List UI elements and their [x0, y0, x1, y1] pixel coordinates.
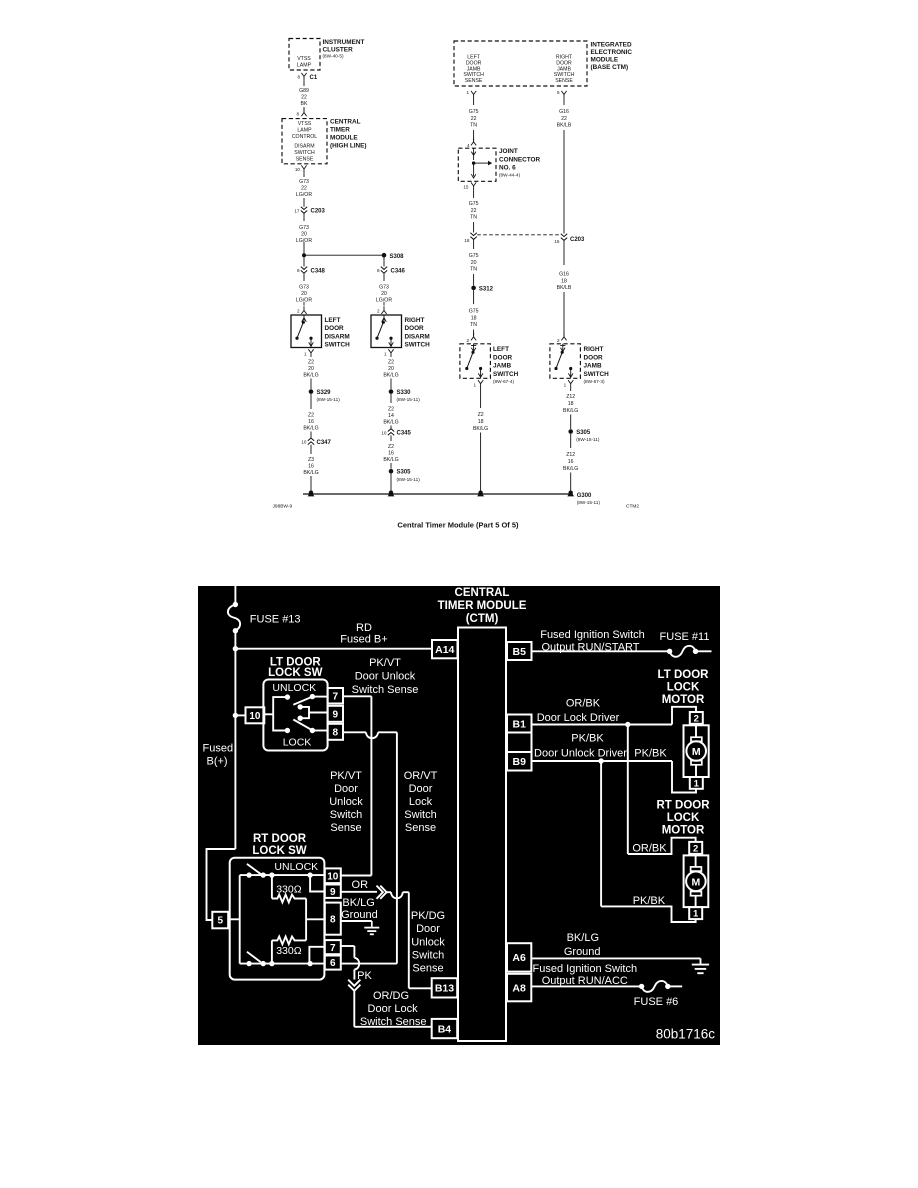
splice S329 [309, 389, 314, 394]
wire PK/BK door unlock driver [532, 760, 673, 762]
wire Z3 16 BK/LG left lower [310, 445, 312, 454]
svg-text:SWITCH: SWITCH [294, 150, 315, 156]
RT motor M2 [684, 855, 709, 907]
svg-text:BK/LG: BK/LG [563, 408, 578, 414]
svg-text:G75: G75 [469, 201, 479, 207]
svg-text:RIGHT: RIGHT [584, 346, 604, 353]
svg-text:17: 17 [294, 208, 300, 213]
ground stud left disarm [309, 491, 313, 495]
svg-text:Z2: Z2 [388, 444, 394, 450]
svg-text:S329: S329 [317, 390, 332, 396]
svg-text:BK/LB: BK/LB [557, 285, 572, 291]
RT switch pin 6 [325, 956, 341, 970]
RT switch pin 7 [325, 940, 341, 954]
svg-text:DOOR: DOOR [405, 325, 425, 332]
svg-text:SWITCH: SWITCH [584, 371, 610, 378]
svg-text:Lock: Lock [409, 796, 433, 808]
OR/BK branch to RT motor [627, 725, 629, 855]
svg-text:TN: TN [470, 123, 477, 129]
svg-text:Output RUN/ACC: Output RUN/ACC [542, 975, 628, 987]
connector pin B4 [432, 1019, 458, 1038]
svg-text:SENSE: SENSE [296, 157, 314, 163]
RT switch pin 9 [325, 885, 341, 898]
svg-text:10: 10 [327, 871, 339, 882]
svg-text:FUSE #13: FUSE #13 [250, 613, 301, 625]
svg-text:14: 14 [388, 413, 394, 419]
svg-text:CENTRAL: CENTRAL [330, 119, 361, 126]
RT switch pin 8 [325, 903, 341, 935]
svg-text:S305: S305 [576, 430, 591, 436]
svg-text:S312: S312 [479, 286, 494, 292]
ground stud right disarm [389, 491, 393, 495]
right disarm switch pin 2 [381, 306, 386, 314]
svg-text:(HIGH LINE): (HIGH LINE) [330, 143, 367, 150]
LT switch pin 8 [328, 724, 343, 740]
svg-text:10: 10 [301, 440, 307, 445]
svg-text:Fused Ignition Switch: Fused Ignition Switch [540, 629, 645, 641]
wire Z2 18 BK/LG jamb left [480, 388, 482, 409]
svg-text:MODULE: MODULE [330, 135, 358, 142]
svg-text:2: 2 [377, 308, 380, 313]
svg-text:1: 1 [564, 382, 567, 387]
connector C203 pin 17 [301, 207, 307, 214]
svg-text:Z12: Z12 [566, 452, 575, 458]
svg-text:8: 8 [377, 268, 380, 273]
svg-text:6: 6 [330, 958, 336, 969]
svg-text:Fused Ignition Switch: Fused Ignition Switch [533, 963, 638, 975]
svg-text:18: 18 [471, 315, 477, 321]
svg-text:Z3: Z3 [308, 457, 314, 463]
svg-text:10: 10 [295, 167, 301, 172]
wire RT pin 6 to OR/VT [341, 963, 397, 965]
svg-text:BK/LG: BK/LG [383, 457, 398, 463]
RT switch inner circuit [228, 918, 240, 920]
svg-text:OR: OR [352, 879, 369, 891]
svg-text:7: 7 [333, 691, 339, 702]
RT switch pin 5 [212, 912, 228, 929]
svg-text:J98BW-9: J98BW-9 [273, 504, 293, 510]
svg-text:(8W-15-11): (8W-15-11) [317, 397, 341, 402]
RT switch lower blade [247, 952, 261, 963]
svg-text:Switch: Switch [330, 809, 362, 821]
svg-text:INTEGRATED: INTEGRATED [591, 42, 632, 49]
svg-text:UNLOCK: UNLOCK [272, 682, 316, 694]
svg-text:DOOR: DOOR [325, 325, 345, 332]
svg-text:18: 18 [464, 238, 470, 243]
svg-text:INSTRUMENT: INSTRUMENT [323, 39, 365, 46]
svg-text:22: 22 [471, 116, 477, 122]
left disarm switch pin 2 [301, 306, 306, 314]
svg-text:CONTROL: CONTROL [292, 134, 317, 140]
svg-text:LEFT: LEFT [325, 317, 341, 324]
svg-text:MOTOR: MOTOR [662, 825, 705, 837]
svg-text:7: 7 [330, 943, 336, 954]
svg-text:CONNECTOR: CONNECTOR [499, 156, 540, 163]
svg-text:5: 5 [557, 90, 560, 95]
svg-text:SENSE: SENSE [465, 78, 483, 84]
svg-text:G300: G300 [577, 493, 592, 499]
svg-text:C347: C347 [317, 440, 332, 446]
svg-text:PK/BK: PK/BK [571, 732, 604, 744]
svg-text:LOCK SW: LOCK SW [268, 667, 322, 679]
wire G73 20 LG/OR [303, 213, 305, 221]
svg-text:Z2: Z2 [388, 407, 394, 413]
wire G75 22 TN upper [473, 99, 475, 105]
svg-text:18: 18 [478, 419, 484, 425]
junction OR/BK [625, 722, 630, 727]
svg-text:RT DOOR: RT DOOR [253, 833, 307, 845]
svg-text:TN: TN [470, 322, 477, 328]
wire fused ignition RUN/ACC from A8 [531, 985, 639, 987]
connector C347 pin 10 [308, 438, 314, 445]
svg-text:TN: TN [470, 267, 477, 273]
wire G73 20 LG/OR left [303, 273, 305, 281]
svg-text:(CTM): (CTM) [466, 613, 499, 625]
svg-text:Z2: Z2 [388, 360, 394, 366]
svg-text:G89: G89 [299, 88, 309, 94]
svg-text:Central Timer Module (Part 5 O: Central Timer Module (Part 5 Of 5) [397, 521, 519, 530]
svg-text:Sense: Sense [405, 822, 436, 834]
svg-text:G75: G75 [469, 109, 479, 115]
svg-text:BK/LG: BK/LG [303, 426, 318, 432]
svg-text:LAMP: LAMP [297, 63, 312, 69]
svg-text:330Ω: 330Ω [276, 945, 302, 957]
svg-text:16: 16 [308, 419, 314, 425]
svg-text:LOCK: LOCK [283, 737, 312, 749]
svg-text:9: 9 [333, 709, 339, 720]
wire G75 20 TN [473, 240, 475, 250]
svg-text:CENTRAL: CENTRAL [455, 587, 510, 599]
connector pin A6 [507, 943, 531, 971]
svg-text:FUSE #11: FUSE #11 [660, 631, 710, 643]
integrated electronic module box [454, 41, 587, 86]
svg-text:8: 8 [296, 112, 299, 117]
svg-text:TIMER: TIMER [330, 127, 350, 134]
wire OR from RT pin 9 [341, 891, 377, 893]
svg-text:RT DOOR: RT DOOR [656, 800, 710, 812]
svg-text:CLUSTER: CLUSTER [323, 47, 354, 54]
svg-text:Z2: Z2 [308, 413, 314, 419]
svg-text:BK/LG: BK/LG [303, 373, 318, 379]
svg-text:LOCK: LOCK [667, 682, 700, 694]
svg-text:BK/LB: BK/LB [557, 123, 572, 129]
fuse #13 [228, 605, 240, 631]
svg-text:LOCK: LOCK [667, 812, 700, 824]
splice S312 [471, 286, 476, 291]
svg-text:DISARM: DISARM [325, 333, 350, 340]
svg-text:8: 8 [333, 727, 339, 738]
connector C203 pin 18 [470, 233, 476, 240]
svg-text:22: 22 [301, 186, 307, 192]
svg-text:JOINT: JOINT [499, 148, 518, 155]
splice junction node [302, 253, 306, 257]
svg-text:80b1716c: 80b1716c [656, 1026, 716, 1041]
svg-text:DOOR: DOOR [584, 354, 604, 361]
svg-text:UNLOCK: UNLOCK [274, 861, 318, 873]
svg-text:1: 1 [694, 778, 700, 789]
svg-text:Ground: Ground [341, 909, 378, 921]
svg-text:CTM2: CTM2 [626, 504, 639, 510]
chassis ground RT pin 8 [371, 921, 373, 927]
splice S305 jamb right [568, 429, 573, 434]
svg-text:G73: G73 [299, 225, 309, 231]
svg-text:VTSS: VTSS [298, 121, 312, 127]
svg-text:S330: S330 [397, 390, 412, 396]
splice S330 [389, 389, 394, 394]
svg-text:B5: B5 [513, 646, 527, 658]
wire G73 22 LG/OR [303, 173, 305, 177]
svg-text:2: 2 [557, 338, 560, 343]
svg-text:JAMB: JAMB [584, 363, 602, 370]
joint connector pin 4 [471, 138, 476, 146]
LT switch pin 10 [246, 707, 265, 723]
svg-text:Sense: Sense [330, 822, 361, 834]
off-page arrow down [348, 980, 360, 986]
svg-text:Switch: Switch [412, 949, 444, 961]
wire PK/DG with hop to B13 [387, 891, 391, 893]
wire RD fused B+ to A14 [235, 648, 432, 650]
svg-text:8: 8 [297, 268, 300, 273]
IEM pin 5 connector [561, 91, 566, 99]
ground stud left jamb [478, 491, 482, 495]
svg-text:ELECTRONIC: ELECTRONIC [591, 49, 633, 56]
svg-text:G75: G75 [469, 253, 479, 259]
svg-text:Door Unlock Driver: Door Unlock Driver [534, 747, 627, 759]
IEM pin 1 connector [471, 91, 476, 99]
svg-text:TIMER MODULE: TIMER MODULE [438, 600, 527, 612]
wire G16 18 BK/LB [563, 241, 565, 266]
svg-text:2: 2 [297, 308, 300, 313]
svg-text:Switch Sense: Switch Sense [352, 684, 419, 696]
svg-text:(8W-15-11): (8W-15-11) [577, 500, 601, 505]
RT switch resistor 330 ohm upper [271, 875, 273, 898]
svg-text:330Ω: 330Ω [276, 883, 302, 895]
svg-text:22: 22 [471, 208, 477, 214]
svg-text:A8: A8 [512, 982, 526, 994]
left jamb switch pin 2 [471, 333, 476, 341]
fused B+ vertical wire [234, 631, 236, 849]
svg-text:BK: BK [301, 101, 308, 107]
svg-text:(8W-67-4): (8W-67-4) [493, 379, 514, 384]
svg-text:Door: Door [409, 783, 433, 795]
svg-text:BK/LG: BK/LG [342, 897, 374, 909]
svg-text:A14: A14 [435, 644, 454, 656]
svg-text:B13: B13 [435, 983, 454, 995]
wire G75 22 TN lower [473, 190, 475, 198]
connector pin B1 [507, 715, 532, 733]
svg-text:BK/LG: BK/LG [383, 420, 398, 426]
central timer module (high line) box [282, 119, 327, 164]
svg-text:(8W-15-11): (8W-15-11) [576, 437, 600, 442]
svg-text:15: 15 [463, 184, 469, 189]
svg-text:2: 2 [693, 843, 698, 854]
connector C203 pin 15 [561, 234, 567, 241]
svg-text:RIGHT: RIGHT [405, 317, 425, 324]
svg-text:1: 1 [384, 351, 387, 356]
LT motor pin 2 feed [672, 707, 696, 725]
svg-text:C346: C346 [391, 269, 406, 275]
svg-text:22: 22 [301, 95, 307, 101]
svg-text:PK/VT: PK/VT [330, 770, 362, 782]
svg-text:BK/LG: BK/LG [303, 470, 318, 476]
svg-text:2: 2 [466, 338, 469, 343]
svg-text:16: 16 [308, 464, 314, 470]
svg-text:JAMB: JAMB [493, 363, 511, 370]
svg-text:TN: TN [470, 215, 477, 221]
svg-text:Door Lock Driver: Door Lock Driver [537, 712, 620, 724]
svg-text:10: 10 [381, 430, 387, 435]
svg-text:18: 18 [568, 401, 574, 407]
connector pin A8 [507, 974, 531, 1002]
wire OR/VT from pin 8 with hop [343, 731, 366, 733]
svg-text:G75: G75 [469, 309, 479, 315]
svg-text:Unlock: Unlock [329, 796, 363, 808]
svg-text:OR/BK: OR/BK [632, 843, 667, 855]
svg-text:22: 22 [561, 116, 567, 122]
svg-text:20: 20 [308, 366, 314, 372]
connector pin B9 [507, 752, 532, 771]
svg-text:Switch Sense: Switch Sense [360, 1016, 427, 1028]
svg-text:1: 1 [466, 90, 469, 95]
wire Z2 16 BK/LG right [390, 436, 392, 442]
svg-text:(8W-15-11): (8W-15-11) [397, 477, 421, 482]
svg-text:OR/VT: OR/VT [404, 770, 438, 782]
svg-text:C345: C345 [397, 431, 412, 437]
svg-text:5: 5 [217, 916, 223, 927]
wire BK/LG ground from A6 [531, 957, 700, 959]
connector C346 pin 8 [381, 267, 387, 274]
svg-text:RD: RD [356, 622, 372, 634]
svg-text:PK/DG: PK/DG [411, 910, 445, 922]
LT door lock switch body [263, 680, 327, 751]
svg-text:Switch: Switch [404, 809, 436, 821]
svg-text:16: 16 [568, 459, 574, 465]
CTM pin 10 connector [301, 165, 306, 173]
wire PK from RT pin 7 with hop [341, 945, 355, 947]
ground G300 [569, 491, 573, 495]
svg-text:20: 20 [301, 232, 307, 238]
off-page arrow right [377, 886, 383, 899]
svg-text:MOTOR: MOTOR [662, 694, 705, 706]
joint connector pin 15 [471, 182, 476, 190]
wire to 5 pin [207, 849, 236, 920]
svg-text:Door: Door [334, 783, 358, 795]
connector pin 8 to CTM [301, 108, 306, 116]
LT motor M1 [684, 725, 709, 777]
svg-text:G73: G73 [299, 285, 309, 291]
svg-text:BK/LG: BK/LG [473, 426, 488, 432]
svg-text:(8W-67-3): (8W-67-3) [584, 379, 605, 384]
svg-text:SWITCH: SWITCH [493, 371, 519, 378]
connector cavity between B1 and B9 [507, 733, 532, 753]
svg-text:1: 1 [474, 382, 477, 387]
black diagram background [198, 586, 720, 1045]
fused B+ feed wire top [234, 586, 236, 605]
splice S308 [382, 253, 387, 258]
junction PK/BK [598, 758, 603, 763]
svg-text:C348: C348 [311, 269, 326, 275]
svg-text:C1: C1 [310, 75, 318, 81]
svg-text:9: 9 [330, 887, 336, 898]
svg-text:LEFT: LEFT [493, 346, 509, 353]
svg-text:LAMP: LAMP [297, 128, 312, 134]
svg-text:M: M [692, 876, 701, 888]
svg-text:Fused: Fused [203, 742, 234, 754]
RT switch pin 7 link [309, 947, 324, 964]
RT switch pin 10 [325, 868, 341, 883]
svg-text:M: M [692, 746, 701, 758]
central timer module box [458, 628, 506, 1042]
svg-text:B(+): B(+) [207, 756, 228, 768]
svg-text:OR/BK: OR/BK [566, 697, 601, 709]
wire BK/LG from RT pin 8 to ground [341, 920, 372, 922]
wire OR/DG to B4 [353, 991, 355, 1027]
LT motor pin 1 feed [672, 761, 696, 793]
svg-text:10: 10 [249, 711, 261, 722]
svg-text:OR/DG: OR/DG [373, 990, 409, 1002]
svg-text:G16: G16 [559, 109, 569, 115]
connector pin B13 [432, 978, 458, 997]
svg-text:Door: Door [416, 923, 440, 935]
svg-text:DISARM: DISARM [405, 333, 430, 340]
svg-text:Z2: Z2 [308, 360, 314, 366]
chassis ground A6 [700, 958, 702, 964]
svg-text:FUSE #6: FUSE #6 [634, 996, 679, 1008]
svg-text:SWITCH: SWITCH [405, 342, 431, 349]
right door jamb switch [550, 344, 581, 379]
svg-text:20: 20 [471, 260, 477, 266]
wire RT pin 10 to PK/VT [341, 875, 372, 877]
splice S305 right disarm [389, 469, 394, 474]
wire G16 22 BK/LB [563, 99, 565, 105]
svg-text:B9: B9 [513, 756, 527, 768]
svg-text:G16: G16 [559, 272, 569, 278]
wire G73 20 LG/OR right [383, 273, 385, 281]
connector pin B5 [507, 642, 532, 660]
junction to A14 [233, 646, 238, 651]
svg-text:S305: S305 [397, 470, 412, 476]
svg-text:DOOR: DOOR [493, 354, 513, 361]
svg-text:C203: C203 [570, 237, 585, 243]
svg-text:1: 1 [304, 351, 307, 356]
fuse #11 [667, 649, 672, 654]
junction to pin 10 [233, 713, 238, 718]
connector C345 pin 10 [388, 429, 394, 436]
svg-text:VTSS: VTSS [297, 56, 311, 62]
svg-text:20: 20 [381, 291, 387, 297]
svg-text:A6: A6 [512, 952, 526, 964]
left door disarm switch [291, 315, 322, 348]
svg-text:G73: G73 [379, 285, 389, 291]
svg-text:20: 20 [301, 291, 307, 297]
svg-text:Door Unlock: Door Unlock [355, 670, 416, 682]
wire to S308 [304, 254, 384, 256]
svg-text:PK/VT: PK/VT [369, 657, 401, 669]
svg-text:20: 20 [388, 366, 394, 372]
svg-text:4: 4 [467, 143, 470, 148]
svg-text:1: 1 [693, 909, 699, 920]
svg-text:8: 8 [330, 914, 336, 925]
svg-text:S308: S308 [390, 254, 405, 260]
RT door lock switch body [230, 858, 325, 980]
svg-text:(8W-15-11): (8W-15-11) [397, 397, 421, 402]
svg-text:16: 16 [388, 451, 394, 457]
wire OR/BK door lock driver [532, 724, 673, 726]
right door disarm switch [371, 315, 402, 348]
left door jamb switch [460, 344, 491, 379]
svg-text:Z2: Z2 [478, 412, 484, 418]
ground bus wire [303, 493, 571, 495]
